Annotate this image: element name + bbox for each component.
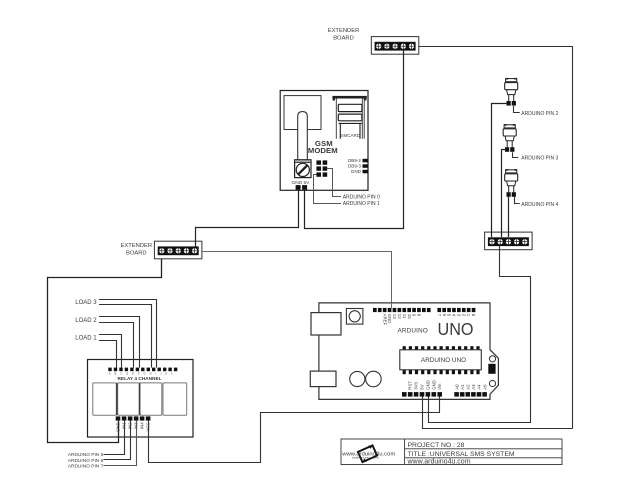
svg-text:ARDUINO PIN 3: ARDUINO PIN 3: [521, 155, 558, 161]
svg-text:A4: A4: [477, 384, 482, 390]
svg-text:LOAD 3: LOAD 3: [75, 300, 97, 306]
sensor switch S1: [505, 78, 518, 106]
wire LOAD3 pair: [99, 300, 157, 368]
wire GSM 5V to top extender: [305, 51, 404, 229]
arduino ICSP header: [488, 364, 495, 374]
wire stub into left extender: [195, 241, 197, 247]
arduino power pin labels: [408, 380, 443, 390]
arduino board outline: [319, 303, 499, 400]
svg-text:ARDUINO UNO: ARDUINO UNO: [421, 357, 466, 364]
svg-text:13: 13: [392, 314, 397, 319]
wire S3 to label: [515, 197, 520, 204]
svg-text:BOARD: BOARD: [126, 250, 147, 256]
wire S1 to label: [514, 106, 520, 113]
svg-text:10: 10: [407, 314, 412, 319]
relay internal wire B: [139, 383, 141, 415]
arduino mounting hole top: [489, 356, 495, 362]
svg-text:EXTENDER: EXTENDER: [121, 243, 153, 249]
GSM antenna box: [284, 96, 321, 130]
svg-text:GND 5V: GND 5V: [292, 180, 311, 186]
wire stub into arduino GND top pin: [391, 303, 393, 308]
svg-text:PROJECT NO : 28: PROJECT NO : 28: [408, 442, 465, 449]
svg-text:SIMCARD: SIMCARD: [339, 133, 361, 138]
relay top pins header: [108, 368, 177, 372]
svg-text:12: 12: [397, 314, 402, 319]
svg-text:LOAD 1: LOAD 1: [75, 335, 97, 341]
svg-text:TITLE :UNIVERSAL SMS SYSTEM: TITLE :UNIVERSAL SMS SYSTEM: [408, 451, 515, 458]
svg-text:3V3: 3V3: [414, 381, 419, 389]
wire top extender to right rail and down to arduino 5V: [416, 47, 573, 429]
svg-text:simple arduino projects: simple arduino projects: [352, 456, 379, 460]
wire relay IN1 to label: [104, 421, 125, 455]
arduino digital pins 0-7 header: [437, 308, 475, 312]
svg-text:A0: A0: [454, 384, 459, 390]
svg-text:ARDUINO PIN 0: ARDUINO PIN 0: [343, 195, 380, 201]
svg-text:A3: A3: [471, 384, 476, 390]
svg-text:MODEM: MODEM: [308, 146, 338, 155]
wire stub below bottom-right extender: [499, 246, 501, 250]
svg-text:GND: GND: [431, 380, 436, 390]
svg-text:ARDUINO PIN 4: ARDUINO PIN 4: [521, 202, 558, 208]
wire GSM GND to left extender: [196, 190, 299, 245]
wire relay IN3 to label: [104, 421, 137, 466]
wire stubs below relay pins: [118, 421, 120, 438]
relay internal wire A: [116, 383, 118, 415]
GSM power pins: [296, 185, 301, 190]
svg-text:LOAD 2: LOAD 2: [75, 318, 97, 324]
svg-text:RELAY 4 CHANNEL: RELAY 4 CHANNEL: [118, 376, 162, 381]
wire stubs at arduino bottom pins: [423, 397, 440, 400]
svg-text:RST: RST: [408, 381, 413, 390]
title block frame: [341, 439, 562, 465]
svg-text:GND: GND: [387, 314, 392, 324]
svg-text:ARDUINO PIN 1: ARDUINO PIN 1: [343, 201, 380, 207]
GSM modem board outline: [280, 91, 368, 191]
wire left extender to relay GND loop: [48, 259, 162, 443]
wire arduino GND pin to bottom-right extender: [429, 247, 531, 423]
GSM serial pin block 2x3: [316, 160, 327, 176]
svg-text:DB9-3: DB9-3: [348, 164, 361, 169]
GSM power jack screw: [295, 160, 311, 178]
arduino power jack: [310, 371, 336, 387]
relay bottom pins header: [116, 416, 151, 420]
arduino power pins header: [402, 392, 442, 397]
GSM simcard holder: [332, 96, 366, 139]
wire S3 to extender: [508, 197, 510, 237]
arduino capacitor C2: [366, 371, 382, 387]
wire relay VCC to arduino Vin: [149, 397, 440, 463]
svg-text:IN4: IN4: [140, 422, 145, 429]
svg-text:EXTENDER: EXTENDER: [328, 28, 360, 34]
wire GSM RX to label: [314, 175, 342, 204]
svg-text:11: 11: [402, 314, 407, 319]
svg-text:5V: 5V: [420, 384, 425, 389]
svg-text:A2: A2: [466, 384, 471, 390]
wire relay IN2 to label: [104, 421, 131, 460]
wire S2 to label: [513, 152, 519, 157]
GSM antenna mast: [298, 112, 308, 160]
relay module K2: [118, 383, 139, 415]
relay board outline: [88, 360, 194, 438]
svg-text:AREF: AREF: [382, 314, 387, 326]
relay module K4: [163, 383, 187, 415]
wire LOAD2 pair: [99, 317, 140, 368]
wire LOAD1 pair: [99, 335, 122, 368]
bottom right extender board: [485, 232, 532, 250]
svg-text:DB9-2: DB9-2: [348, 158, 361, 163]
arduino top pin labels right: [437, 314, 476, 317]
svg-text:ARDUINO: ARDUINO: [398, 327, 428, 334]
svg-text:BOARD: BOARD: [333, 35, 354, 41]
svg-text:Vin: Vin: [437, 383, 442, 390]
wire S2 to extender: [502, 150, 507, 238]
sensor switch S2: [503, 124, 516, 152]
left extender board: [154, 241, 202, 259]
arduino mounting hole bottom: [489, 380, 495, 386]
relay module K1: [93, 383, 117, 415]
arduino digital pins 8-13 header: [373, 308, 431, 312]
wire stub into top extender: [403, 50, 405, 54]
arduino reset button: [346, 309, 363, 325]
svg-text:A1: A1: [460, 384, 465, 390]
wire arduino 5V pin to right rail: [423, 397, 573, 429]
svg-text:ARDUINO PIN 2: ARDUINO PIN 2: [521, 111, 558, 117]
svg-text:GND: GND: [425, 380, 430, 390]
svg-text:ARDUINO PIN 6: ARDUINO PIN 6: [68, 458, 104, 464]
arduino IC chip: [400, 346, 482, 374]
svg-text:ARDUINO PIN 7: ARDUINO PIN 7: [68, 464, 104, 470]
wire S1 to extender: [492, 104, 508, 238]
relay module K3: [140, 383, 162, 415]
wire GSM TX to label: [327, 169, 341, 197]
sensor switch S3: [505, 169, 518, 197]
svg-text:www.arduino4u.com: www.arduino4u.com: [407, 459, 471, 466]
arduino capacitor C1: [350, 371, 365, 386]
relay bottom pin labels: [116, 422, 151, 432]
svg-text:ARDUINO PIN 5: ARDUINO PIN 5: [68, 452, 104, 458]
logo arduino4u: [341, 444, 395, 463]
wire left extender to arduino top GND: [203, 252, 392, 308]
arduino analog pins header: [454, 392, 487, 397]
arduino USB connector: [311, 313, 341, 335]
svg-text:A5: A5: [482, 384, 487, 390]
top extender board: [371, 37, 419, 55]
arduino analog pin labels: [454, 384, 487, 390]
svg-text:UNO: UNO: [438, 319, 474, 339]
arduino top pin labels left: [382, 314, 421, 326]
svg-text:GND: GND: [351, 169, 362, 174]
